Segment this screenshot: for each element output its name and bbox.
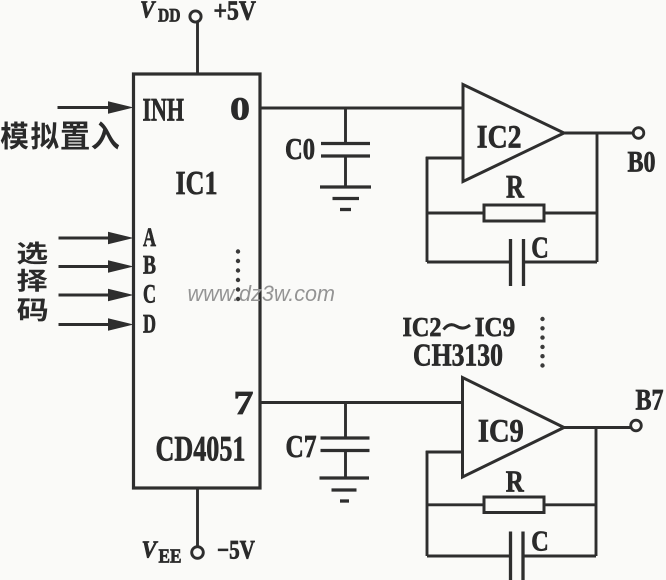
wire C bottom left [427,261,511,264]
label IC9 [478,414,524,450]
capacitor C (IC2 feedback) [511,239,524,286]
ellipsis dots (channels 1..6) [236,249,240,301]
wire C7 stem top [344,403,347,439]
arrow INH input [58,101,134,114]
svg-text:CD4051: CD4051 [156,429,246,469]
arrow select B [59,260,134,273]
wire IC2 inverting input vertical [426,157,463,262]
pin label A [143,223,156,252]
svg-text:C: C [531,526,549,558]
svg-text:EE: EE [159,547,182,568]
watermark www.dz3w.com [188,281,336,306]
arrow select D [59,318,134,331]
ground below C7 [320,478,370,501]
label B7 [636,384,664,417]
pin label D [143,310,156,339]
svg-text:www.dz3w.com: www.dz3w.com [188,281,336,306]
pin label 7 [234,385,254,422]
svg-text:IC2: IC2 [477,120,522,156]
label CH3130 [413,337,503,373]
wire C0 stem bottom [344,156,347,187]
svg-text:C7: C7 [286,428,317,464]
svg-text:A: A [143,223,156,252]
svg-text:7: 7 [234,385,254,422]
wire C bottom right [524,261,598,264]
wire VDD to IC1 top [196,23,199,76]
label C7 [286,428,317,464]
wire IC2 output [564,132,634,135]
wire IC2 output vertical [596,133,599,262]
resistor R (IC2 feedback) [484,205,544,221]
wire R right [544,212,597,215]
capacitor C (IC9 feedback) [511,532,524,580]
IC1 CD4051 analog multiplexer body [134,74,261,488]
svg-text:0: 0 [230,92,250,128]
wire R left [427,212,485,215]
wire channel 0 output [260,107,463,110]
capacitor C7 [321,438,370,451]
svg-text:B: B [143,251,156,280]
pin label 0 [230,92,250,128]
wire IC1 bottom to VEE [196,487,199,546]
pin label C [143,280,156,309]
pin label B [143,251,156,280]
svg-text:C0: C0 [285,131,315,166]
svg-text:C: C [143,280,156,309]
capacitor C0 [321,144,370,157]
wire C bottom left (IC9) [427,555,511,558]
label C0 [285,131,315,166]
svg-text:INH: INH [143,93,185,129]
svg-text:CH3130: CH3130 [413,337,503,373]
label +5V [214,0,257,26]
svg-text:V: V [142,538,159,564]
label IC1 [176,165,218,202]
svg-text:D: D [143,310,156,339]
ground below C0 [320,187,371,210]
wire IC9 inverting input vertical [426,451,463,556]
svg-text:R: R [506,170,525,206]
label -5V [217,536,255,565]
ellipsis dots (IC3..IC8) [540,317,544,368]
svg-text:C: C [531,230,549,265]
label 选择码 (select code) [17,242,47,322]
label IC2 [477,120,522,156]
label C (IC9) [531,526,549,558]
wire IC9 output vertical [595,428,598,557]
wire R right (IC9) [544,503,596,506]
svg-text:+5V: +5V [214,0,257,26]
label VEE [142,538,182,568]
label 模拟置入 (analog input) [1,121,119,149]
svg-text:B0: B0 [628,146,656,179]
resistor R (IC9 feedback) [484,497,544,513]
svg-text:B7: B7 [636,384,664,417]
wire IC9 output [564,426,631,429]
wire channel 7 output [260,401,463,404]
wire C bottom right (IC9) [523,555,596,558]
wire C0 stem top [344,108,347,144]
terminal VDD [190,11,201,22]
label R (IC9) [506,464,524,499]
label R [506,170,525,206]
arrow select A [59,232,134,245]
terminal B0 [633,128,644,139]
svg-text:V: V [140,0,156,24]
pin label INH [143,93,185,129]
svg-text:IC9: IC9 [478,414,524,450]
terminal B7 [631,420,642,431]
svg-text:IC1: IC1 [176,165,218,202]
label VDD [140,0,181,27]
label C [531,230,549,265]
wire R left (IC9) [427,503,485,506]
wire C7 stem bottom [344,451,347,479]
label B0 [628,146,656,179]
svg-text:−5V: −5V [217,536,255,565]
value label CD4051 [156,429,246,469]
svg-text:R: R [506,464,524,499]
op-amp IC2 [463,85,564,182]
svg-text:DD: DD [158,6,181,27]
op-amp IC9 [463,378,565,478]
label IC2~IC9 [403,311,516,342]
terminal VEE [192,547,204,559]
arrow select C [59,289,134,302]
